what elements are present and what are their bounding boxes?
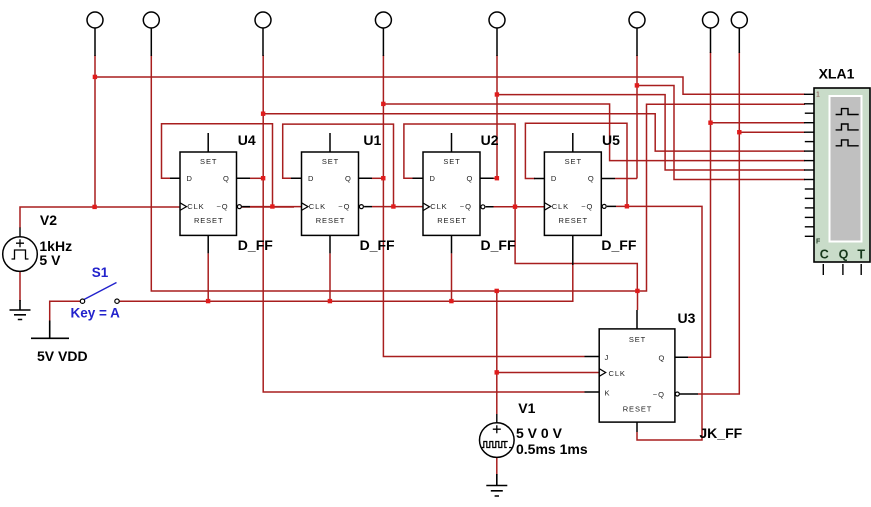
svg-text:5 V 0 V: 5 V 0 V bbox=[516, 425, 563, 441]
D flip-flop U2 bbox=[413, 132, 516, 253]
svg-text:RESET: RESET bbox=[316, 216, 346, 225]
node Q U1 bus tee bbox=[381, 102, 385, 106]
source V2 clock 1kHz bbox=[3, 237, 38, 272]
wire Q U2 stub to node bbox=[493, 177, 498, 179]
wire Q U3 net to XLA1 pin4 bbox=[711, 122, 806, 124]
D flip-flop U5 bbox=[534, 132, 637, 265]
wire Q U5 riser to connector J6 bbox=[636, 55, 638, 179]
wire clock bus to XLA1 pin1 bbox=[95, 77, 805, 94]
svg-text:SET: SET bbox=[322, 157, 339, 166]
ground for V1 bbox=[486, 474, 507, 496]
node ~Q U5 staple tee bbox=[625, 204, 629, 208]
node U4 RESET on row B bbox=[206, 299, 210, 303]
wire Q U3 to connector J7 riser bbox=[688, 52, 711, 357]
svg-text:U3: U3 bbox=[678, 310, 696, 326]
wire row B reset bus from S1 to U5 RESET bbox=[119, 264, 573, 301]
JK flip-flop U3 bbox=[585, 310, 743, 441]
wire V1 top stub red part bbox=[496, 411, 498, 414]
node row A / V1 riser bbox=[495, 289, 499, 293]
svg-text:5 V: 5 V bbox=[39, 252, 61, 268]
wire Q U4 bus to XLA1 pin7 bbox=[263, 114, 805, 151]
node Q U1 pin tee bbox=[381, 176, 385, 180]
svg-text:D: D bbox=[551, 174, 557, 183]
svg-text:Q: Q bbox=[467, 174, 474, 183]
wire VDD to S1 left terminal bbox=[50, 301, 81, 320]
node Q U4 bus tee bbox=[261, 112, 265, 116]
svg-text:Q: Q bbox=[659, 353, 666, 362]
svg-text:CLK: CLK bbox=[609, 369, 626, 378]
svg-text:SET: SET bbox=[565, 157, 582, 166]
svg-text:Q: Q bbox=[223, 174, 230, 183]
node Q U2 bus tee bbox=[495, 92, 499, 96]
node clock/J1 tee bbox=[93, 75, 97, 79]
svg-text:5V VDD: 5V VDD bbox=[37, 348, 88, 364]
source V1 pulse bbox=[480, 423, 515, 458]
svg-text:D_FF: D_FF bbox=[481, 237, 516, 253]
node ~Q U2 staple tee bbox=[513, 205, 517, 209]
svg-text:1: 1 bbox=[816, 92, 820, 99]
node V2/J1 on CLK wire bbox=[92, 205, 96, 209]
D flip-flop U4 bbox=[170, 132, 273, 253]
svg-text:J: J bbox=[605, 353, 610, 362]
ground for V2 bbox=[10, 300, 31, 320]
svg-text:SET: SET bbox=[629, 335, 646, 344]
svg-text:D_FF: D_FF bbox=[601, 237, 636, 253]
wire U1 feedback staple bbox=[283, 124, 394, 207]
svg-text:SET: SET bbox=[200, 157, 217, 166]
svg-text:Q: Q bbox=[588, 174, 595, 183]
connector J3 bbox=[255, 12, 271, 28]
wire Q U4 stub to node bbox=[250, 177, 263, 179]
wire U2 RESET riser bbox=[451, 253, 453, 301]
logic analyzer XLA1 bbox=[804, 66, 870, 276]
VDD 5V rail symbol bbox=[31, 321, 69, 339]
node V1 / CLK U3 tee bbox=[495, 370, 499, 374]
connector J2 bbox=[143, 12, 159, 28]
wire clock net: V2 output to U4 CLK bbox=[20, 207, 294, 228]
svg-text:~Q: ~Q bbox=[653, 390, 665, 399]
wire Q U1 riser to connector J4 bbox=[382, 55, 384, 178]
svg-text:V2: V2 bbox=[40, 212, 57, 228]
SWITCH S1 bbox=[80, 283, 119, 304]
svg-text:RESET: RESET bbox=[437, 216, 467, 225]
svg-text:S1: S1 bbox=[92, 265, 109, 280]
wire V2 bottom to ground bbox=[19, 271, 21, 301]
svg-text:T: T bbox=[857, 247, 865, 261]
svg-text:RESET: RESET bbox=[559, 216, 589, 225]
connector J4 bbox=[375, 12, 391, 28]
node Q U2 pin tee bbox=[495, 176, 499, 180]
wire ~Q U4 to U1 CLK bbox=[250, 206, 302, 208]
svg-text:C: C bbox=[820, 247, 829, 261]
svg-text:CLK: CLK bbox=[309, 202, 326, 211]
svg-text:D: D bbox=[187, 174, 193, 183]
wire Q U1 descender to J U3 bbox=[383, 178, 584, 356]
wire Q U4 riser to connector J3 bbox=[262, 55, 264, 178]
svg-text:Q: Q bbox=[345, 174, 352, 183]
node ~Q U3 / XLA1 pin5 tee bbox=[737, 130, 741, 134]
wire U1 RESET riser bbox=[329, 253, 331, 301]
svg-text:U5: U5 bbox=[602, 132, 620, 148]
wire U4 feedback staple bbox=[162, 124, 273, 207]
node Q U5 bus tee bbox=[635, 83, 639, 87]
WIRES_RED bbox=[20, 52, 805, 475]
connector J8 bbox=[731, 12, 747, 28]
svg-text:CLK: CLK bbox=[552, 202, 569, 211]
svg-text:XLA1: XLA1 bbox=[819, 66, 855, 82]
svg-text:~Q: ~Q bbox=[217, 202, 229, 211]
svg-text:0.5ms 1ms: 0.5ms 1ms bbox=[516, 441, 588, 457]
svg-text:RESET: RESET bbox=[623, 405, 653, 414]
node row A / SET U3 junction bbox=[635, 289, 639, 293]
wire Q U1 stub to node bbox=[371, 177, 383, 179]
wire Q U2 riser to connector J5 bbox=[496, 55, 498, 178]
node U1 RESET on row B bbox=[328, 299, 332, 303]
svg-text:K: K bbox=[605, 389, 611, 398]
wire ~Q U3 net to XLA1 pin5 bbox=[739, 131, 805, 133]
switch S1 terminals bbox=[80, 299, 84, 303]
node Q U4 pin tee bbox=[261, 176, 265, 180]
D flip-flop U1 bbox=[291, 132, 395, 253]
connector J7 bbox=[703, 12, 719, 28]
svg-text:Q: Q bbox=[839, 247, 849, 261]
wire U2 feedback staple bbox=[404, 124, 515, 207]
wire V1 bottom stub bbox=[496, 457, 498, 475]
wire ~Q U2 to U5 CLK bbox=[494, 206, 545, 208]
svg-text:CLK: CLK bbox=[187, 202, 204, 211]
wire ~Q U2 branch to row A junction bbox=[515, 207, 637, 291]
svg-text:D_FF: D_FF bbox=[238, 237, 273, 253]
wire ~Q U5 to RESET U3 bbox=[616, 206, 702, 440]
wire ~Q U1 to U2 CLK bbox=[372, 206, 423, 208]
connector J5 bbox=[489, 12, 505, 28]
svg-text:U4: U4 bbox=[238, 132, 256, 148]
svg-text:CLK: CLK bbox=[430, 202, 447, 211]
svg-text:SET: SET bbox=[443, 157, 460, 166]
connector J1 bbox=[87, 12, 103, 28]
wire Q U5 stub to riser bbox=[615, 178, 637, 180]
wire ~Q U3 to connector J8 riser bbox=[698, 52, 739, 394]
wire V1 riser to row A bbox=[496, 291, 498, 411]
wire SET U3 branch from row A bbox=[637, 291, 639, 310]
node U2 RESET on row B bbox=[449, 299, 453, 303]
wire U4 RESET riser bbox=[207, 253, 209, 301]
svg-text:~Q: ~Q bbox=[581, 202, 593, 211]
svg-text:U2: U2 bbox=[481, 132, 499, 148]
svg-text:RESET: RESET bbox=[194, 216, 224, 225]
svg-text:D_FF: D_FF bbox=[360, 237, 395, 253]
svg-text:~Q: ~Q bbox=[460, 202, 472, 211]
wire connector J2 net: riser, row A, riser to XLA1 pin2 bbox=[151, 55, 805, 291]
svg-text:Key = A: Key = A bbox=[71, 306, 121, 321]
wire Q U5 bus to XLA1 pin10 bbox=[637, 86, 805, 180]
wire Q U2 bus to XLA1 pin9 bbox=[497, 95, 805, 170]
svg-text:V1: V1 bbox=[518, 400, 535, 416]
wire Q U1 bus to XLA1 pin8 bbox=[383, 104, 805, 161]
svg-text:D: D bbox=[308, 174, 314, 183]
wire U5 feedback staple bbox=[525, 123, 627, 206]
svg-text:~Q: ~Q bbox=[338, 202, 350, 211]
node ~Q U1 staple tee bbox=[391, 204, 395, 208]
node ~Q U4 staple tee bbox=[270, 204, 274, 208]
wire Q U4 descender to K U3 bbox=[263, 178, 584, 392]
svg-text:D: D bbox=[430, 174, 436, 183]
node Q U3 / XLA1 pin4 tee bbox=[708, 121, 712, 125]
svg-text:JK_FF: JK_FF bbox=[699, 425, 742, 441]
wire V1 to CLK U3 bbox=[497, 372, 599, 374]
connector J6 bbox=[629, 12, 645, 28]
svg-text:F: F bbox=[816, 239, 821, 246]
svg-text:U1: U1 bbox=[363, 132, 381, 148]
switch S1 lever bbox=[84, 283, 117, 300]
wire clock riser from connector J1 bbox=[94, 55, 96, 207]
